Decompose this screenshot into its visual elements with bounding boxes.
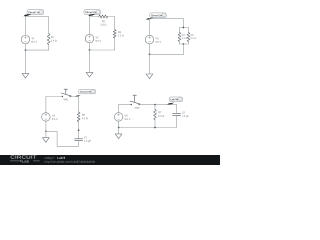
wire: circuit 4 left lower [45, 121, 47, 131]
node: circuit 5 bottom-left junction [118, 127, 120, 129]
wire: circuit 5 top-right segment [139, 104, 177, 106]
voltage source V3 [145, 35, 161, 44]
wire: circuit 5 right drop [176, 105, 178, 114]
wire: circuit 4 left upper [45, 97, 47, 113]
resistor R2 [99, 15, 108, 26]
wire: circuit 4 resistor to capacitor [78, 122, 80, 139]
wire: circuit 5 left upper [118, 105, 120, 113]
wire: circuit 1 left lower [25, 44, 27, 50]
flag wedge circuit 5 [167, 103, 174, 106]
wire: circuit 4 top-left segment [46, 96, 63, 98]
node: parallel top junction [183, 27, 185, 29]
voltage source V4 [42, 113, 58, 122]
resistor R7 [154, 105, 164, 120]
wire: circuit 3 bottom [150, 53, 184, 55]
footer text line 2 [45, 160, 95, 163]
wire: circuit 3 left upper [149, 19, 151, 36]
node: circuit 5 top junction [154, 104, 156, 106]
wire: circuit 2 right upper [114, 17, 116, 30]
voltage source V1 [21, 35, 37, 44]
voltage source V5 [114, 113, 130, 122]
CircuitLab logo [10, 155, 40, 162]
wire: circuit 2 right lower [114, 38, 116, 50]
resistor R3 [113, 30, 123, 39]
wire: circuit 5 bottom [119, 127, 177, 129]
label box circuit 2 [84, 10, 101, 15]
node: parallel bottom junction [183, 43, 185, 45]
ground circuit 5 [115, 128, 122, 139]
wire: circuit 5 top-left segment [119, 104, 132, 106]
label box circuit 3 [150, 13, 166, 18]
label box circuit 5 [169, 97, 182, 102]
ground circuit 3 [146, 54, 153, 78]
node: circuit 2 bottom junction [89, 49, 91, 51]
wire: circuit 2 top-right segment [108, 16, 115, 18]
flag wedge circuit 4 [75, 95, 80, 97]
capacitor C1 [75, 136, 91, 142]
capacitor C2 [173, 112, 189, 118]
wire: circuit 1 left upper [25, 17, 27, 36]
resistor R1 [47, 34, 56, 45]
switch SW2 [130, 95, 140, 108]
wire: parallel pair top rail [180, 27, 189, 29]
label box circuit 1 [27, 10, 43, 15]
resistor R6 [77, 112, 87, 122]
node: circuit 1 bottom junction [25, 49, 27, 51]
wire: circuit 3 right drop [182, 19, 184, 28]
ground circuit 4 [43, 131, 50, 142]
label box circuit 4 [79, 89, 96, 94]
wire: circuit 1 top [26, 16, 49, 18]
switch SW1 [61, 89, 71, 100]
wire: circuit 4 top-right segment [70, 96, 78, 98]
footer text line 1 [45, 157, 55, 160]
wire: parallel pair bottom rail [180, 43, 189, 45]
wire: circuit 1 bottom [26, 49, 49, 51]
wire: circuit 1 right upper [48, 17, 50, 34]
node: circuit 5 bottom-mid junction [154, 127, 156, 129]
wire: circuit 4 bottom return path [46, 131, 79, 146]
wire: circuit 5 resistor lower [154, 120, 156, 128]
wire: circuit 3 right lower [182, 44, 184, 54]
ground circuit 2 [86, 50, 93, 77]
resistor R4 [178, 28, 187, 45]
wire: circuit 5 left lower [118, 121, 120, 127]
flag wedge circuit 3 [146, 17, 154, 19]
wire: circuit 3 left lower [149, 44, 151, 55]
wire: circuit 4 right drop [78, 97, 80, 113]
wire: circuit 1 right lower [48, 45, 50, 51]
resistor R5 [187, 28, 196, 45]
wire: circuit 2 bottom [90, 49, 115, 51]
wire: circuit 2 left lower [89, 43, 91, 50]
flag wedge circuit 2 [88, 14, 96, 17]
wire: circuit 5 capacitor lower [176, 115, 178, 127]
ground circuit 1 [22, 50, 29, 78]
node: circuit 4 ground junction [45, 130, 47, 132]
wire: circuit 3 top [150, 18, 184, 20]
flag wedge circuit 1 [24, 14, 32, 17]
wire: circuit 2 left upper [89, 17, 91, 35]
node: circuit 4 mid dot [78, 129, 80, 131]
voltage source V2 [85, 34, 101, 43]
node: circuit 3 bottom junction [149, 54, 151, 56]
footer bar [0, 155, 220, 165]
wire: circuit 2 top-left segment [90, 16, 99, 18]
